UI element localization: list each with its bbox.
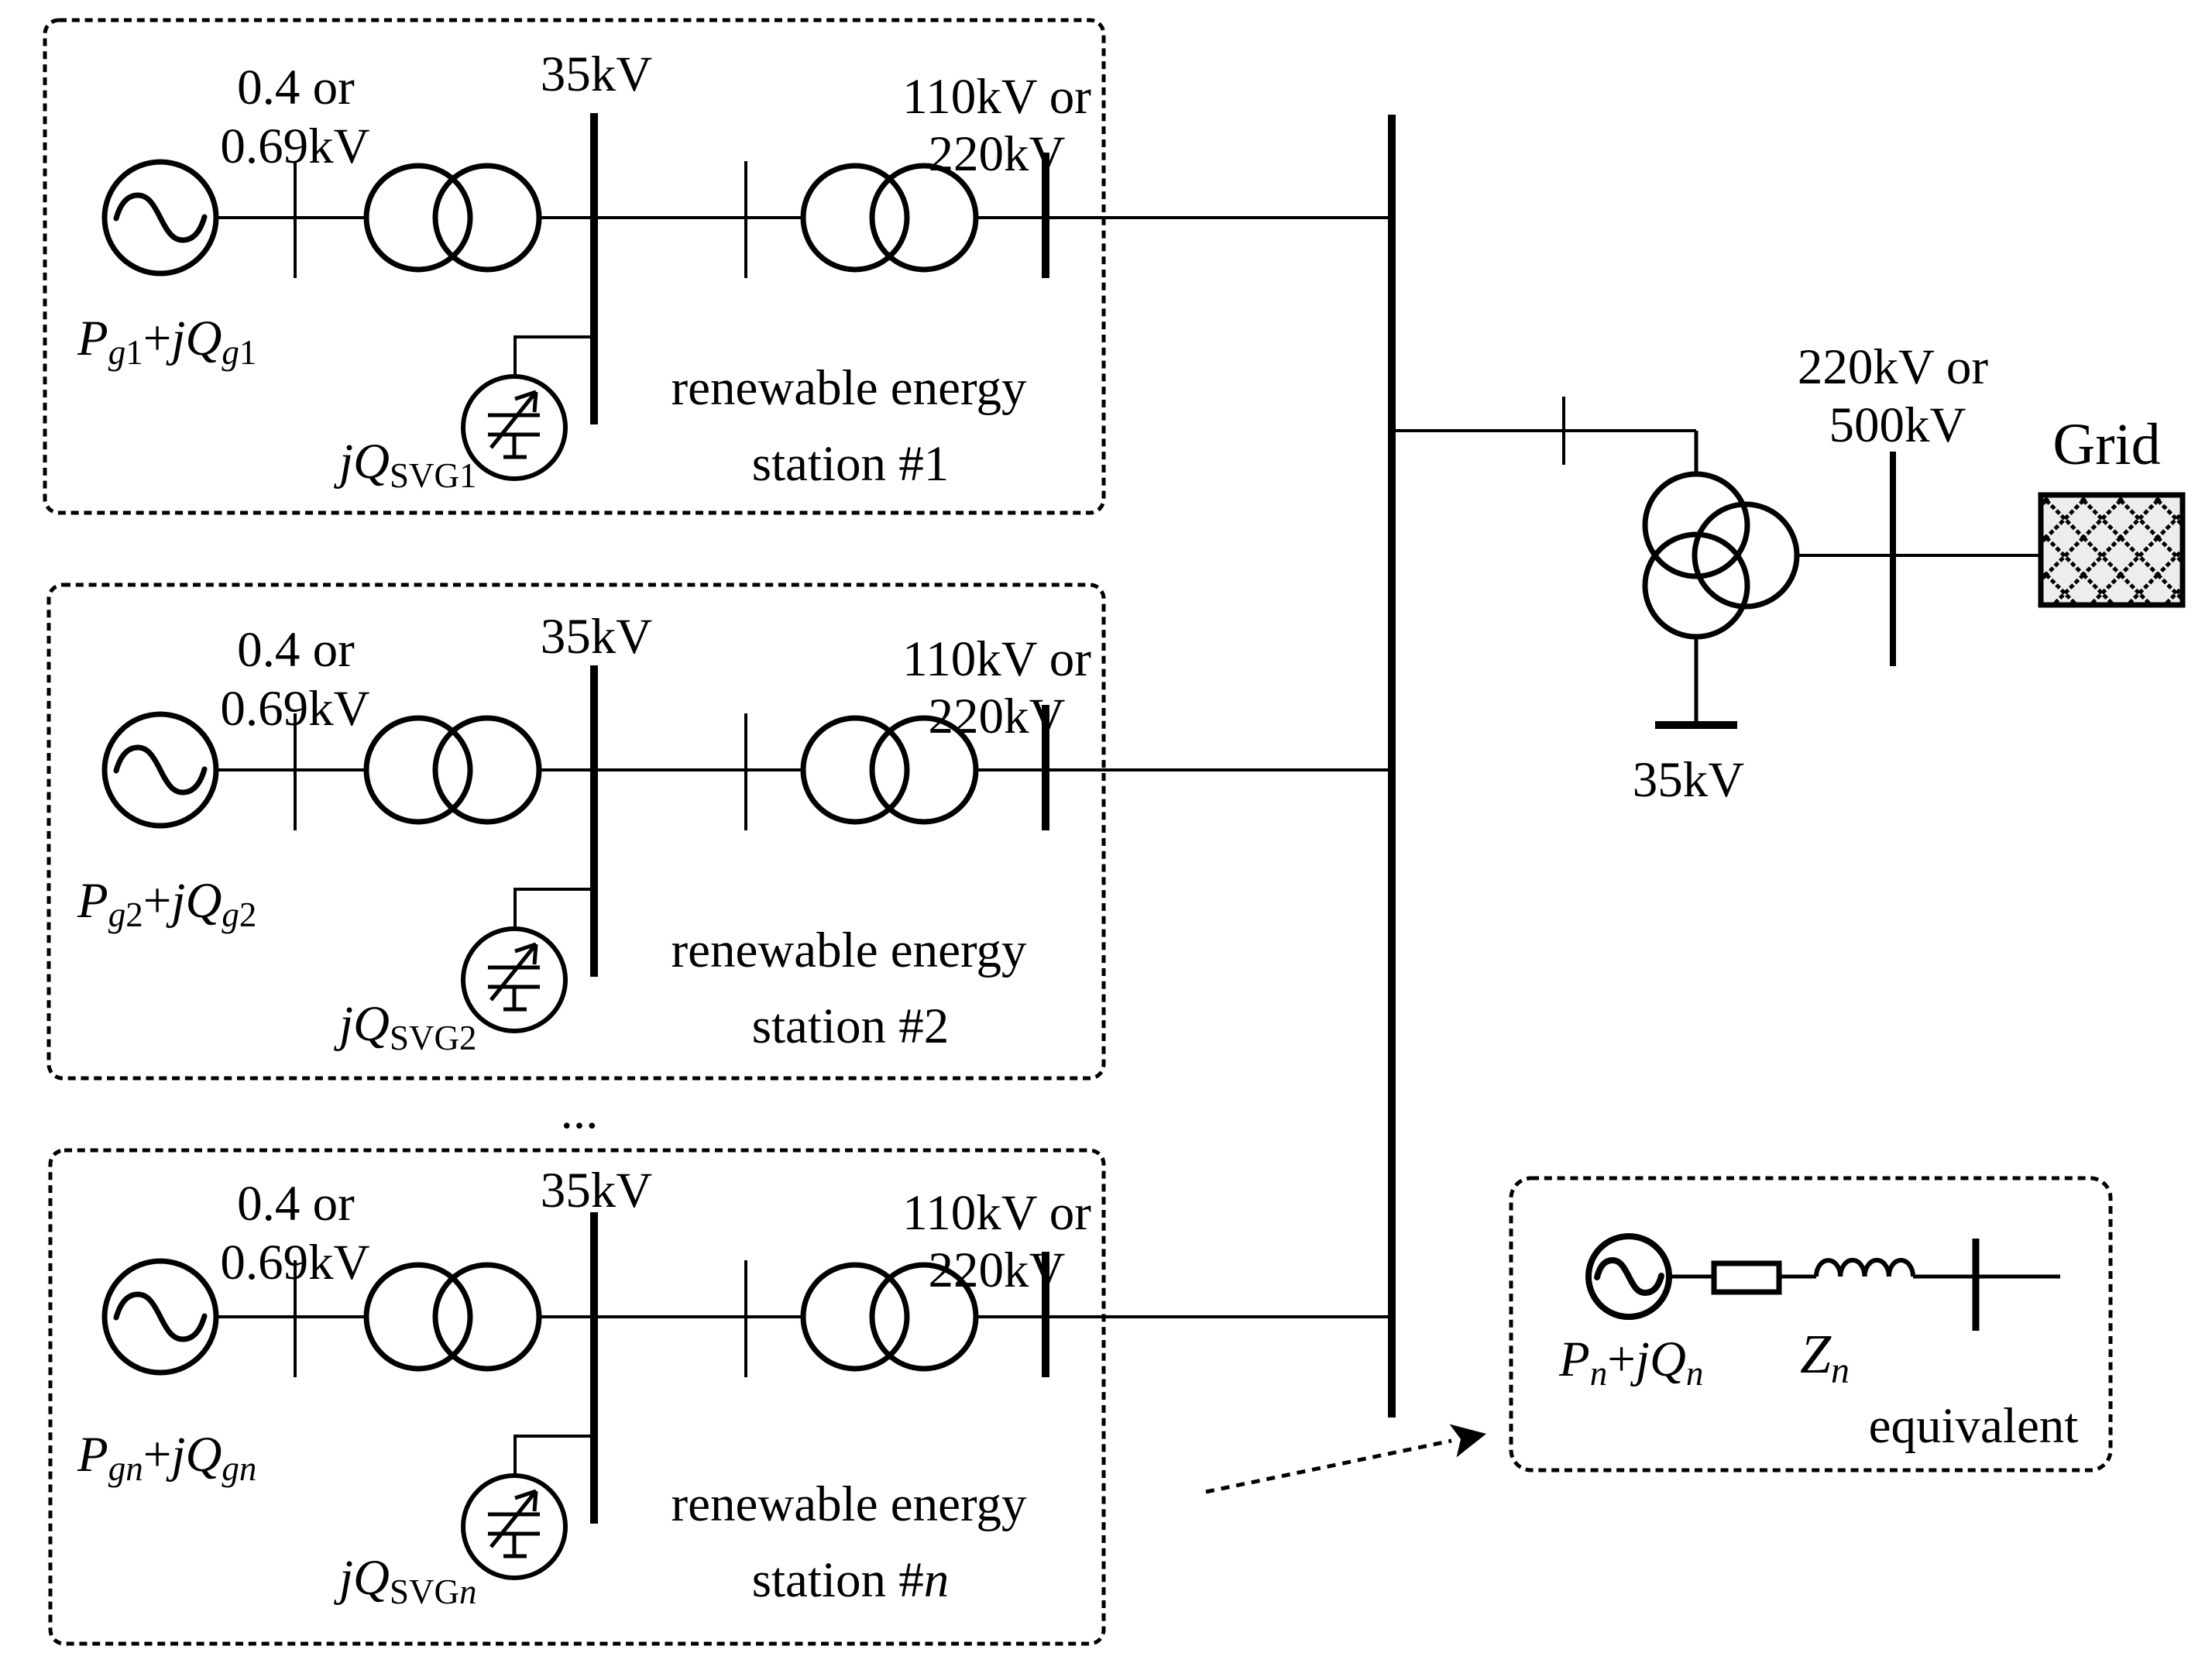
svg-text:renewable energy: renewable energy [671, 360, 1027, 416]
dashed annotation arrow [1206, 1441, 1451, 1492]
svg-text:220kV: 220kV [929, 689, 1066, 744]
resistor Zn [1714, 1263, 1779, 1292]
station #n graphics [105, 1212, 1388, 1578]
equivalent bus tick [1973, 1239, 1980, 1331]
wire transformer to grid box [1797, 554, 2041, 557]
svg-text:0.4 or: 0.4 or [237, 622, 355, 678]
equivalent source sine [1597, 1260, 1661, 1293]
svg-text:0.69kV: 0.69kV [220, 681, 369, 737]
wire central bus to grid transformer [1392, 429, 1696, 432]
svg-text:110kV or: 110kV or [902, 69, 1091, 125]
grid box [2041, 495, 2183, 605]
svg-text:35kV: 35kV [541, 46, 653, 102]
station #n labels [77, 1163, 1091, 1611]
station #n dashed box [50, 1150, 1104, 1644]
svg-text:station #1: station #1 [752, 436, 950, 492]
svg-text:500kV: 500kV [1829, 397, 1966, 453]
wire source to resistor [1668, 1275, 1714, 1279]
svg-text:0.69kV: 0.69kV [220, 119, 369, 174]
wire resistor to inductor [1778, 1275, 1816, 1279]
equivalent source Pn [1589, 1236, 1669, 1317]
svg-text:Pn+jQn: Pn+jQn [1558, 1332, 1703, 1393]
wire down to transformer [1695, 431, 1698, 476]
station #1 labels [77, 46, 1091, 495]
svg-text:0.69kV: 0.69kV [220, 1235, 369, 1290]
svg-text:35kV: 35kV [541, 1163, 653, 1218]
svg-text:220kV: 220kV [929, 126, 1066, 182]
svg-text:35kV: 35kV [1633, 752, 1745, 808]
station #1 graphics [105, 113, 1388, 479]
equivalent dashed box [1511, 1178, 2111, 1470]
220kV/500kV bus [1890, 452, 1896, 666]
arrow head [1450, 1424, 1487, 1458]
svg-text:station #n: station #n [752, 1552, 950, 1608]
svg-text:renewable energy: renewable energy [671, 1476, 1027, 1532]
svg-text:station #2: station #2 [752, 998, 950, 1054]
station #2 labels [77, 609, 1091, 1057]
svg-text:110kV or: 110kV or [902, 631, 1091, 687]
inductor Zn [1816, 1260, 1913, 1277]
svg-text:110kV or: 110kV or [902, 1185, 1091, 1241]
svg-text:renewable energy: renewable energy [671, 923, 1027, 978]
station #1 dashed box [45, 20, 1104, 513]
wire inductor to bus [1913, 1275, 2060, 1279]
svg-text:35kV: 35kV [541, 609, 653, 665]
station #2 dashed box [49, 585, 1104, 1078]
svg-text:equivalent: equivalent [1869, 1398, 2079, 1454]
svg-text:Grid: Grid [2052, 412, 2160, 477]
station #2 graphics [105, 665, 1388, 1031]
three-winding grid transformer [1645, 474, 1797, 637]
svg-text:...: ... [561, 1084, 599, 1139]
35kV terminal bar [1655, 721, 1737, 729]
wire transformer to 35kV ground [1695, 637, 1698, 721]
svg-text:220kV: 220kV [929, 1242, 1066, 1298]
central collector bus [1388, 115, 1396, 1418]
tick on grid feeder [1562, 397, 1565, 465]
svg-text:0.4 or: 0.4 or [237, 60, 355, 115]
svg-text:0.4 or: 0.4 or [237, 1176, 355, 1232]
svg-text:220kV or: 220kV or [1798, 339, 1989, 395]
